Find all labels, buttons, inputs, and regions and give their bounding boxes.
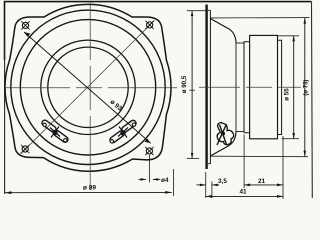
svg-text:ø 90,5: ø 90,5 (181, 75, 188, 93)
flange circle ø93 outer (11, 10, 165, 164)
dimension ø55 extension bottom (282, 138, 299, 140)
frame silhouette with corner tabs (speaker basket front outline) (5, 4, 171, 171)
flange top cap (208, 9, 211, 11)
svg-text:3,5: 3,5 (218, 178, 227, 185)
cone inner circle (48, 47, 128, 127)
extension line flange front (bottom) (205, 172, 207, 198)
extension line flange back (bottom) (211, 182, 213, 199)
dimension 3,5 (flange thickness) (197, 178, 228, 186)
drawing frame border left (4, 40, 6, 194)
dimension (ø73) extension top (211, 17, 310, 19)
svg-text:(ø 73): (ø 73) (303, 80, 309, 96)
terminal lug (side view scribble) (217, 123, 234, 146)
basket bottom diagonal (211, 132, 237, 156)
dimension (ø73) extension bottom (211, 155, 309, 158)
dimension 21 (magnet depth) (244, 178, 283, 186)
extension line back plate (bottom) (282, 136, 284, 199)
svg-text:21: 21 (258, 178, 266, 185)
svg-text:ø4: ø4 (161, 177, 169, 184)
terminal lug right (front view) (109, 119, 137, 144)
drawing frame border right (311, 2, 314, 198)
dimension ø90,5 (flange dia, left of side view) (181, 11, 206, 159)
back plate (278, 40, 282, 134)
flange bottom cap (208, 163, 211, 165)
dimension (ø73) vertical line (303, 18, 309, 157)
dimension ø89 bottom of front view (5, 169, 174, 196)
mounting hole bottom-left (21, 145, 29, 153)
terminal lug left (front view) (41, 119, 69, 143)
flange back line (209, 10, 211, 163)
svg-text:41: 41 (239, 188, 247, 195)
surround outer circle (20, 20, 155, 155)
dimension ø4 (mounting hole dia) (139, 155, 169, 184)
svg-text:ø 55: ø 55 (284, 88, 291, 101)
dimension ø93 diagonal line with arrows (24, 32, 151, 143)
neck-to-plate step top (236, 42, 244, 44)
cone edge circle (41, 40, 135, 134)
mounting hole bottom-right (145, 147, 153, 155)
voice-coil neck (235, 43, 237, 132)
svg-text:ø 89: ø 89 (83, 185, 97, 192)
magnet ring (250, 35, 278, 138)
drawing frame border top (5, 2, 312, 60)
vertical centerline front view (89, 3, 91, 191)
mounting flange (side, thick front face) (205, 5, 207, 170)
anti-diagonal centerline through TR and BL holes (21, 21, 155, 155)
dimension 41 (total depth) (206, 188, 283, 197)
centerline side view (199, 86, 301, 88)
dimension ø55 vertical line (284, 36, 295, 139)
neck-to-plate step bottom (236, 131, 244, 133)
mounting hole top-left (21, 21, 29, 29)
front plate (244, 42, 250, 133)
mounting hole top-right (145, 21, 153, 29)
horizontal centerline front view (5, 87, 177, 89)
dimension ø55 extension top (278, 35, 300, 37)
basket top diagonal (211, 19, 237, 43)
extension line front plate (bottom) (243, 135, 245, 189)
